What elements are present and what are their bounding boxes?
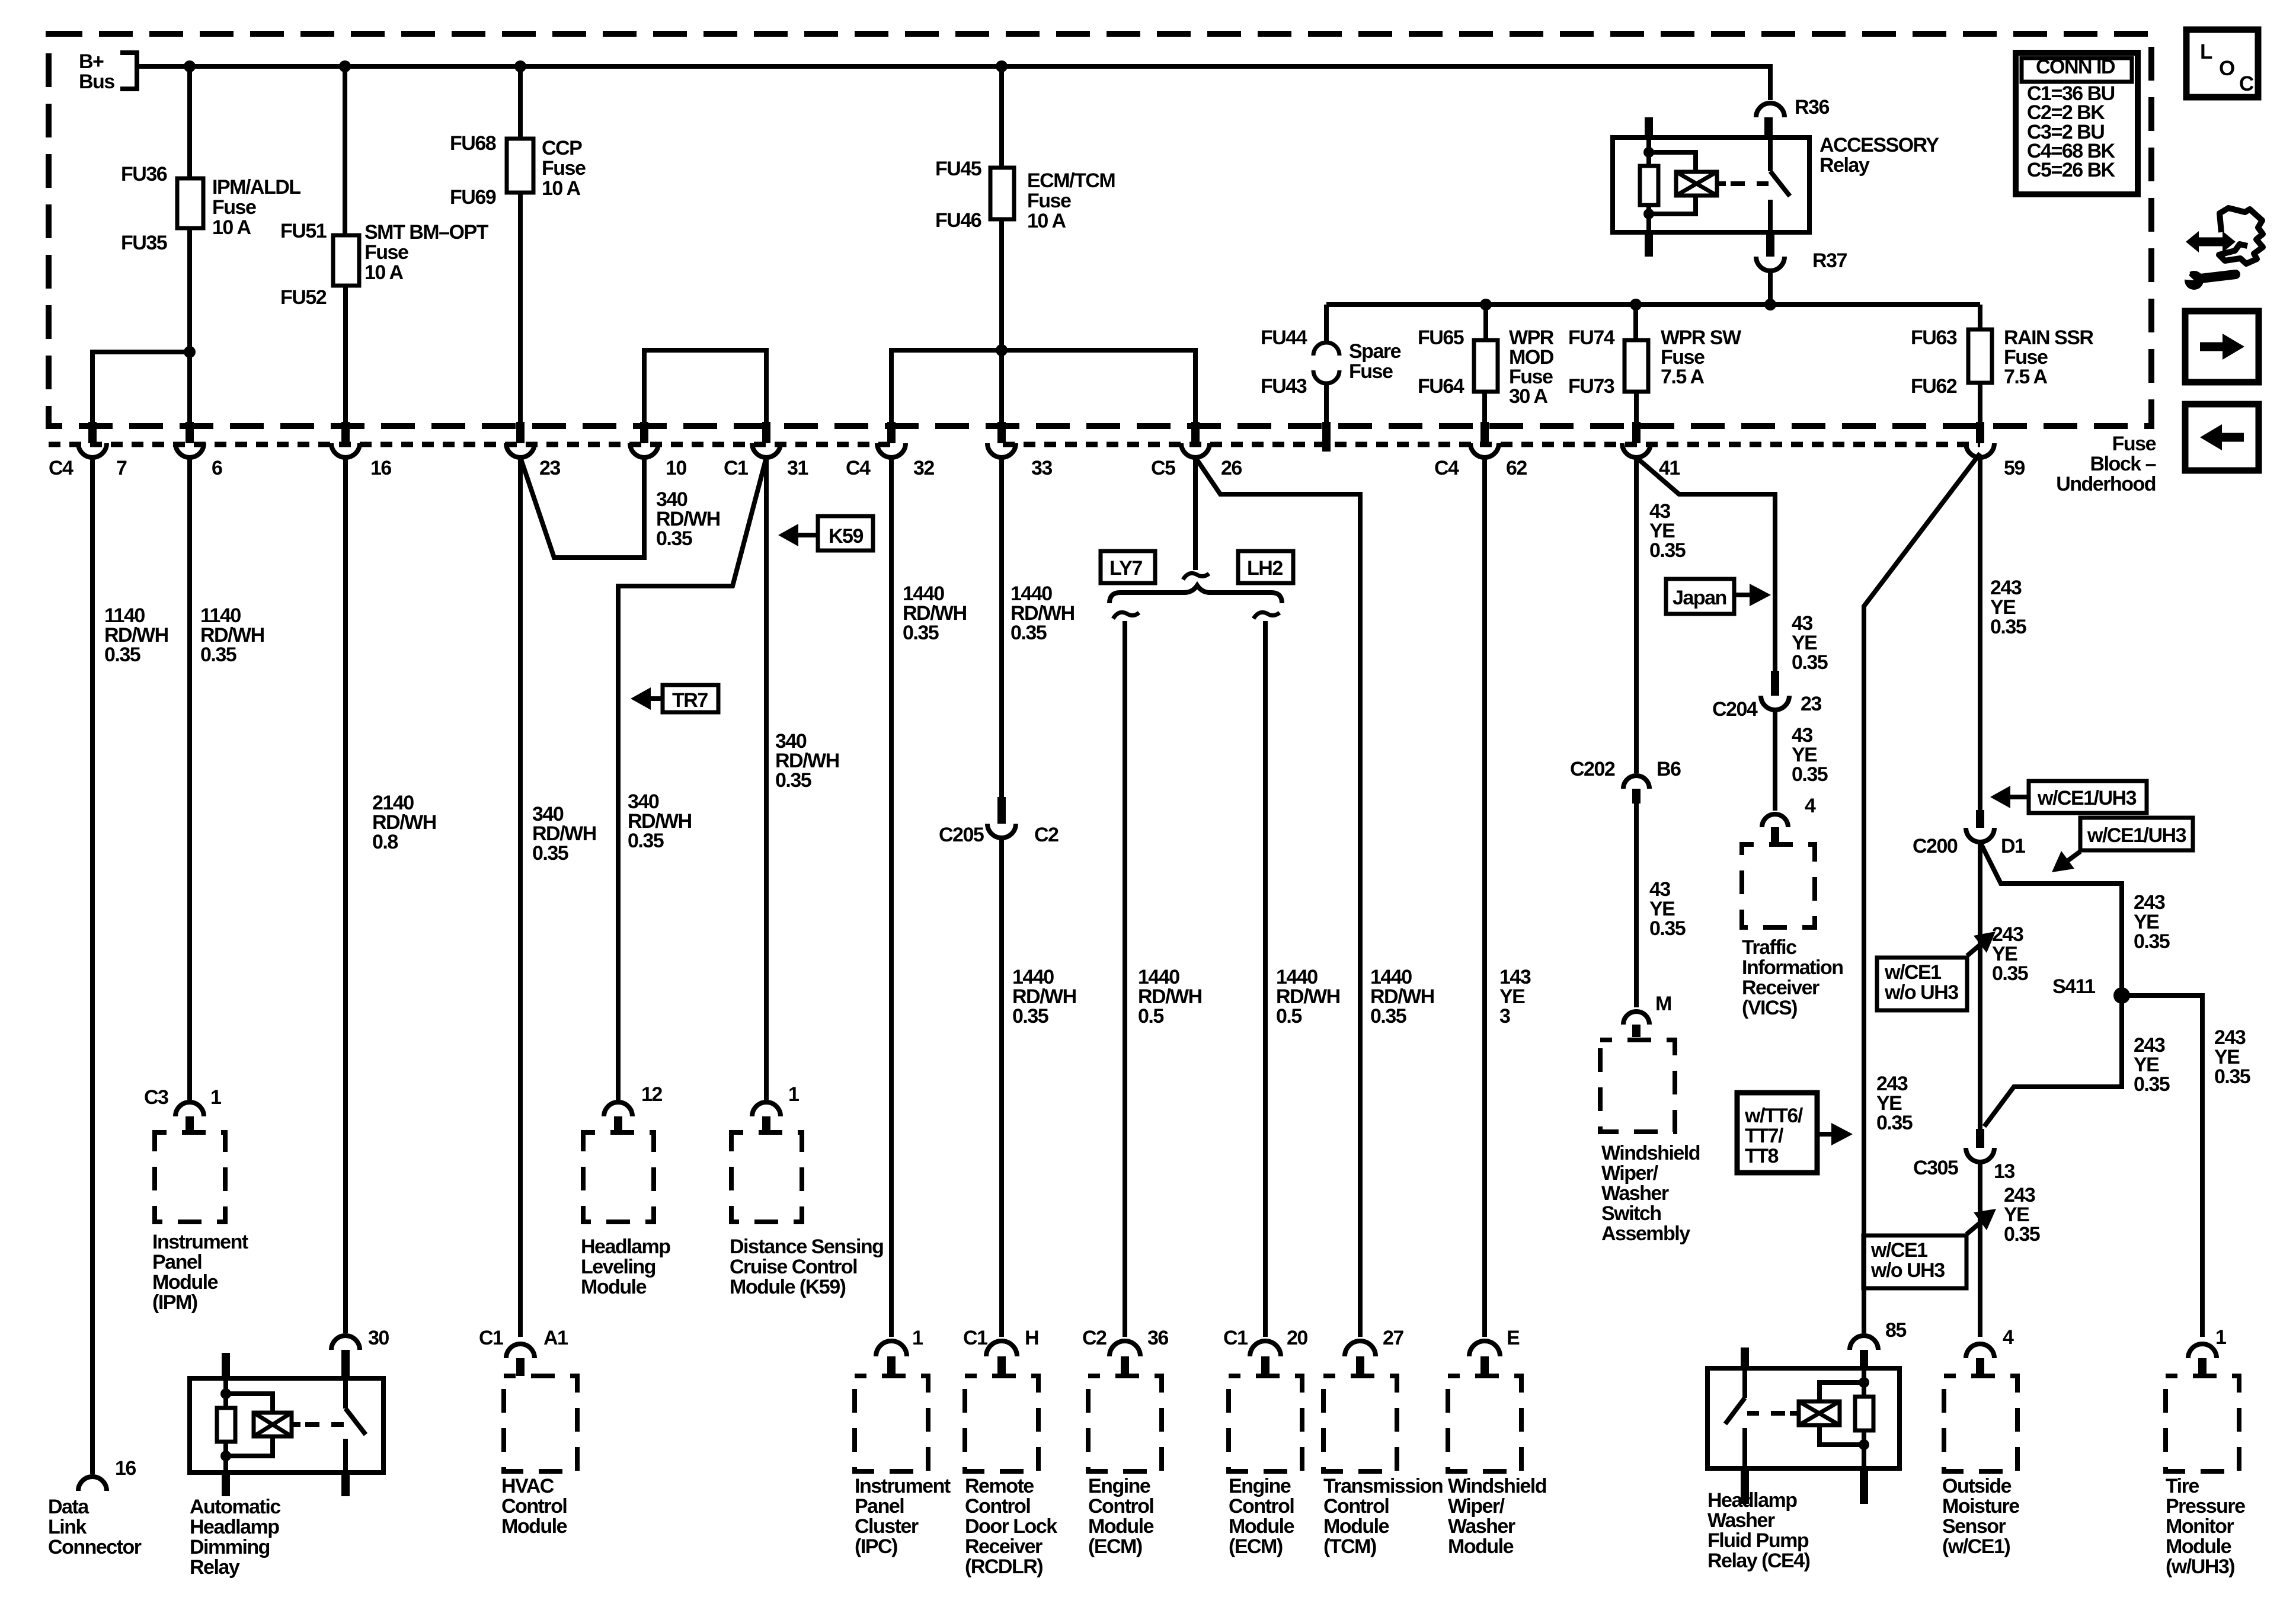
label C5=26 BK	[2027, 159, 2116, 181]
HW relay coil winding symbol	[1799, 1382, 1864, 1445]
svg-text:Windshield: Windshield	[1448, 1475, 1546, 1497]
svg-text:C204: C204	[1712, 698, 1758, 721]
connector id C1 HVAC	[479, 1327, 503, 1349]
connector id C1 RCDLR	[963, 1327, 987, 1349]
HW relay coil resistor	[1855, 1368, 1873, 1468]
pin 10 blade at fuse block	[640, 422, 648, 443]
svg-text:Data: Data	[48, 1496, 89, 1518]
svg-text:4: 4	[2003, 1326, 2014, 1349]
svg-text:30: 30	[368, 1327, 389, 1349]
label C200	[1913, 835, 1958, 857]
label wire 243 YE 0.35 S411 branch	[2134, 1034, 2170, 1096]
connector row dotted line	[49, 442, 1980, 447]
label box w/CE1/UH3 lower	[2080, 818, 2193, 850]
svg-text:Block –: Block –	[2090, 453, 2156, 475]
label wire 43 YE 0.35 pin41	[1649, 500, 1686, 562]
relay coil blade bottom	[1645, 232, 1653, 257]
wire pin 6 to IPM	[187, 457, 192, 1100]
fuse FU63/FU62 RAIN SSR 7.5A	[1968, 329, 1992, 383]
svg-text:FU68: FU68	[450, 132, 496, 155]
wire pin 62 to wiper washer module	[1482, 457, 1487, 1337]
svg-text:FU52: FU52	[280, 286, 327, 309]
svg-text:Wiper/: Wiper/	[1448, 1495, 1505, 1518]
label Fuse Block - Underhood	[2056, 433, 2156, 495]
svg-text:7.5 A: 7.5 A	[1661, 366, 1704, 388]
connector C1 pin A1 at HVAC	[506, 1344, 535, 1376]
arrow K59	[778, 524, 818, 546]
label box w/CE1/UH3 upper	[2029, 781, 2147, 813]
junction on B+ bus x=1690	[996, 60, 1008, 72]
svg-text:(RCDLR): (RCDLR)	[965, 1555, 1043, 1578]
junction pin7 branch	[184, 346, 196, 358]
label FU44	[1261, 327, 1307, 349]
label wire 243 YE 0.35 C200-C305	[1992, 923, 2028, 985]
wire pin 59 diagonal to relay 85	[1864, 453, 1980, 1333]
arrow w/CE1 w/o UH3 lower	[1966, 1209, 1996, 1234]
connector pin E at WWM	[1469, 1341, 1500, 1374]
label box K59	[818, 516, 873, 550]
wire FU62 to pin 59	[1978, 383, 1982, 422]
pin number 23 C204	[1801, 693, 1821, 715]
AHDR actuator dashed link	[292, 1422, 344, 1427]
relay actuator dashed link	[1717, 181, 1769, 186]
fuse block underhood dashed border	[49, 34, 2151, 426]
HW relay coil blade bottom	[1860, 1468, 1868, 1504]
svg-text:Module: Module	[501, 1515, 567, 1538]
svg-text:C1: C1	[963, 1327, 987, 1349]
svg-text:FU69: FU69	[450, 186, 496, 209]
pin 26 blade at fuse block	[1191, 422, 1200, 443]
B+ bus bracket	[120, 53, 137, 89]
svg-text:Outside: Outside	[1942, 1475, 2012, 1497]
label FU62	[1911, 375, 1957, 398]
svg-text:FU62: FU62	[1911, 375, 1957, 398]
pin 32 blade at fuse block	[887, 422, 896, 443]
svg-text:85: 85	[1885, 1319, 1906, 1342]
pin number 16 DLC	[115, 1457, 136, 1480]
connector id C1 for pin 31	[724, 457, 748, 479]
svg-text:Cluster: Cluster	[855, 1515, 919, 1538]
svg-text:33: 33	[1031, 457, 1052, 479]
svg-text:0.35: 0.35	[1012, 1005, 1048, 1028]
connector DLC pin 16	[78, 1477, 107, 1491]
pin number 23	[539, 457, 560, 479]
label FU63	[1911, 327, 1957, 349]
label C202	[1570, 758, 1615, 780]
wire FU73 to pin 41	[1634, 392, 1639, 422]
svg-text:0.35: 0.35	[200, 644, 236, 666]
svg-text:Remote: Remote	[965, 1475, 1034, 1497]
wire FU68 drop from bus	[518, 66, 523, 139]
label Headlamp Washer Fluid Pump Relay (CE4)	[1707, 1489, 1810, 1572]
pin 32 connector arc	[877, 443, 906, 457]
svg-text:ECM/TCM: ECM/TCM	[1027, 169, 1115, 192]
connector pin 1 TPMM	[2188, 1344, 2217, 1374]
svg-text:w/CE1: w/CE1	[1884, 961, 1941, 984]
HW relay switch blade bottom	[1741, 1468, 1749, 1504]
svg-text:C1: C1	[724, 457, 748, 479]
blade spare fuse stub	[1322, 422, 1331, 452]
module Distance Sensing Cruise Control Module box	[731, 1132, 802, 1222]
wire pin 23 to pin 10 link	[520, 457, 644, 558]
wire break curl LY7 leg	[1113, 612, 1139, 619]
svg-text:K59: K59	[829, 525, 863, 548]
svg-text:Japan: Japan	[1673, 587, 1726, 609]
svg-text:B+: B+	[79, 50, 104, 73]
pin number 13	[1994, 1160, 2014, 1183]
pin number 36 ECM1	[1147, 1327, 1168, 1349]
pin 26 connector arc	[1181, 443, 1210, 457]
svg-text:Washer: Washer	[1707, 1509, 1775, 1532]
svg-text:Engine: Engine	[1229, 1475, 1291, 1497]
pin number 1 IPM	[210, 1086, 221, 1109]
label wire 243 YE 0.35 pin59	[1990, 577, 2026, 638]
wire LY7 leg to ECM	[1123, 621, 1127, 1337]
pin number 4 OMS	[2003, 1326, 2014, 1349]
svg-text:C4: C4	[49, 457, 73, 479]
svg-text:Washer: Washer	[1601, 1182, 1669, 1205]
svg-text:31: 31	[787, 457, 808, 479]
label wire 340 RD/WH 0.35 pin10	[656, 488, 720, 550]
label wire 43 YE 0.35 C204 lower	[1792, 724, 1828, 786]
module ECM1 box	[1088, 1376, 1162, 1471]
label Data Link Connector	[48, 1496, 142, 1558]
pin number 16	[370, 457, 391, 479]
junction on B+ bus x=878	[514, 60, 526, 72]
svg-text:Module: Module	[1088, 1515, 1154, 1538]
svg-text:Engine: Engine	[1088, 1475, 1150, 1497]
svg-text:w/o UH3: w/o UH3	[1884, 981, 1958, 1004]
relay ACCESSORY Relay box	[1613, 137, 1809, 232]
pin 6 connector arc	[175, 443, 204, 457]
HW relay switch contact	[1725, 1347, 1749, 1468]
svg-text:10 A: 10 A	[212, 216, 251, 239]
wire pin 32 to IPC	[889, 457, 894, 1337]
svg-text:IPM/ALDL: IPM/ALDL	[212, 176, 300, 199]
module Tire Pressure Monitor Module box	[2166, 1376, 2239, 1471]
node B+ Bus label	[79, 50, 114, 93]
svg-text:E: E	[1507, 1327, 1520, 1349]
svg-text:Module: Module	[2166, 1535, 2231, 1558]
svg-text:FU63: FU63	[1911, 327, 1957, 349]
svg-text:Module: Module	[1229, 1515, 1294, 1538]
svg-text:10 A: 10 A	[1027, 210, 1066, 232]
pin 7 blade at fuse block	[88, 422, 97, 443]
pin 31 connector arc	[752, 443, 781, 457]
connector pin H at RCDLR	[986, 1341, 1017, 1374]
relay Automatic Headlamp Dimming Relay box	[190, 1378, 383, 1473]
svg-text:FU46: FU46	[935, 209, 981, 232]
label RCDLR text	[965, 1475, 1057, 1578]
svg-text:Module: Module	[1323, 1515, 1389, 1538]
junction rail x=2507	[1480, 299, 1492, 311]
pin 33 blade at fuse block	[997, 422, 1006, 443]
pin number 33	[1031, 457, 1052, 479]
svg-text:Headlamp: Headlamp	[581, 1235, 670, 1258]
svg-text:C1: C1	[1223, 1327, 1248, 1349]
pin 10 connector arc	[630, 443, 658, 457]
label SMT BM-OPT Fuse 10 A	[364, 221, 489, 284]
svg-text:FU36: FU36	[121, 163, 167, 185]
svg-text:CCP: CCP	[542, 137, 582, 159]
label wire 143 YE 3	[1499, 966, 1531, 1028]
svg-text:59: 59	[2004, 457, 2025, 479]
label Distance Sensing Cruise Control Module (K59)	[730, 1235, 883, 1298]
module Traffic Information Receiver box	[1742, 844, 1815, 927]
AHDR switch contact	[346, 1378, 366, 1473]
label wire 1440 RD/WH 0.35 pin32	[903, 582, 967, 644]
HW relay actuator dashed link	[1747, 1411, 1799, 1416]
label box w/CE1 w/o UH3 lower	[1863, 1235, 1966, 1288]
connector pin 1 at IPC	[876, 1341, 907, 1374]
label wire 1440 RD/WH 0.5 LY7	[1138, 966, 1202, 1028]
svg-text:FU73: FU73	[1568, 375, 1614, 398]
svg-text:H: H	[1025, 1327, 1038, 1349]
module TCM box	[1323, 1376, 1397, 1471]
pin number 4 VICS	[1805, 795, 1816, 817]
wire rail to spare fuse	[1324, 305, 1329, 344]
junction on B+ bus x=582	[339, 60, 351, 72]
pin number H RCDLR	[1025, 1327, 1038, 1349]
svg-text:10 A: 10 A	[542, 177, 581, 200]
relay Headlamp Washer Fluid Pump Relay box	[1707, 1368, 1900, 1468]
svg-text:(VICS): (VICS)	[1742, 997, 1797, 1019]
label wire 243 YE 0.35 TPMM	[2214, 1026, 2250, 1088]
label RAIN SSR Fuse 7.5 A	[2004, 327, 2093, 388]
label ECM2 text	[1229, 1475, 1294, 1558]
connector id C5 for pin 26	[1151, 457, 1175, 479]
svg-text:Washer: Washer	[1448, 1515, 1515, 1538]
wire FU45 drop from bus	[999, 66, 1004, 168]
label FU45	[935, 158, 981, 180]
icon double arrow	[2186, 231, 2236, 252]
module Instrument Panel Module box	[155, 1132, 225, 1222]
connector pin 27 at TCM	[1345, 1341, 1376, 1374]
AHDR coil winding symbol	[226, 1394, 292, 1456]
svg-text:10 A: 10 A	[364, 261, 404, 284]
label CCP Fuse 10 A	[542, 137, 586, 200]
pin number 1 IPC	[912, 1327, 923, 1349]
label Windshield Wiper/ Washer Switch Assembly	[1601, 1142, 1700, 1245]
pin number A1	[543, 1327, 568, 1349]
label FU36	[121, 163, 167, 185]
svg-text:Pressure: Pressure	[2166, 1495, 2245, 1518]
label Outside Moisture Sensor (w/CE1)	[1942, 1475, 2019, 1558]
svg-text:FU64: FU64	[1418, 375, 1464, 398]
svg-text:0.35: 0.35	[1792, 763, 1828, 786]
arrow w/CE1 w/o UH3 upper	[1967, 932, 1996, 956]
svg-text:0.35: 0.35	[1992, 962, 2028, 985]
junction on B+ bus x=320	[184, 60, 196, 72]
pin number M	[1655, 993, 1671, 1015]
label wire 1140 RD/WH 0.35 pin6	[200, 604, 264, 666]
label wire 1140 RD/WH 0.35 pin7	[104, 604, 168, 666]
svg-text:Receiver: Receiver	[965, 1535, 1043, 1558]
arrow Japan	[1734, 584, 1771, 606]
wire pin 33 to C205	[999, 457, 1004, 797]
label wire 243 YE 0.35 relay85	[1876, 1073, 1913, 1134]
module Outside Moisture Sensor box	[1944, 1376, 2017, 1471]
wire break curl pin 26	[1183, 573, 1209, 580]
wire S411 down branch to C305	[1984, 996, 2122, 1126]
svg-text:Relay (CE4): Relay (CE4)	[1707, 1550, 1810, 1572]
label box LH2	[1238, 551, 1293, 583]
label TCM text	[1323, 1475, 1443, 1558]
svg-text:Control: Control	[501, 1495, 567, 1518]
svg-text:41: 41	[1659, 457, 1680, 479]
label box w/TT6/TT7/TT8	[1737, 1093, 1817, 1173]
label WWM text	[1448, 1475, 1546, 1558]
pin number 32	[913, 457, 934, 479]
wire FU46 to pin 33	[999, 219, 1004, 422]
svg-text:Sensor: Sensor	[1942, 1515, 2006, 1538]
svg-text:LH2: LH2	[1247, 557, 1283, 580]
svg-text:C5=26 BK: C5=26 BK	[2027, 159, 2116, 181]
wire C305 to outside moisture sensor	[1978, 1162, 1982, 1337]
svg-text:Monitor: Monitor	[2166, 1515, 2234, 1538]
svg-text:Bus: Bus	[79, 71, 114, 93]
CONN ID table box	[2016, 53, 2138, 194]
pin number D1	[2001, 835, 2025, 857]
svg-text:0.35: 0.35	[1649, 539, 1686, 562]
module IPC box	[855, 1376, 928, 1471]
svg-text:FU51: FU51	[280, 220, 327, 242]
svg-text:0.35: 0.35	[1649, 917, 1686, 940]
svg-text:0.35: 0.35	[1876, 1112, 1913, 1134]
svg-text:0.5: 0.5	[1138, 1005, 1163, 1028]
svg-text:HVAC: HVAC	[501, 1475, 554, 1497]
fuse FU65/FU64 WPR MOD 30A	[1474, 340, 1498, 392]
pin 59 connector arc	[1966, 443, 1994, 457]
svg-text:R36: R36	[1795, 96, 1829, 119]
label box LY7	[1101, 551, 1155, 583]
svg-text:6: 6	[212, 457, 222, 479]
svg-text:C202: C202	[1570, 758, 1615, 780]
svg-text:7: 7	[116, 457, 127, 479]
svg-text:Transmission: Transmission	[1323, 1475, 1443, 1497]
fuse FU36/FU35 IPM/ALDL 10A	[177, 178, 203, 228]
svg-text:Module: Module	[1448, 1535, 1514, 1558]
svg-text:7.5 A: 7.5 A	[2004, 366, 2047, 388]
label wire 340 RD/WH 0.35 K59 branch	[775, 730, 839, 792]
wire bus corner down to R36	[1768, 64, 1773, 100]
label FU35	[121, 232, 167, 254]
wire C200 right branch to S411	[1980, 842, 2122, 996]
wire R37 to rail	[1768, 271, 1773, 305]
relay coil resistor	[1640, 137, 1658, 232]
label CONN ID	[2036, 56, 2115, 78]
junction rail x=2987	[1764, 299, 1776, 311]
label WPR MOD Fuse 30 A	[1509, 327, 1554, 408]
svg-text:Assembly: Assembly	[1601, 1222, 1690, 1245]
svg-text:62: 62	[1506, 457, 1527, 479]
connector C204 23	[1761, 671, 1789, 710]
wire pin 59 to C200	[1978, 457, 1982, 810]
wire pin 26 branch to TCM	[1195, 457, 1360, 1337]
svg-text:0.35: 0.35	[104, 644, 140, 666]
svg-text:TR7: TR7	[672, 689, 708, 712]
connector pin 12 headlamp leveling module	[604, 1102, 632, 1131]
svg-text:0.35: 0.35	[532, 842, 568, 865]
label WPR SW Fuse 7.5 A	[1661, 327, 1742, 388]
label box TR7	[663, 685, 718, 712]
connector C305 13	[1966, 1129, 1994, 1162]
svg-text:C200: C200	[1913, 835, 1958, 857]
svg-text:Link: Link	[48, 1516, 87, 1538]
svg-text:L: L	[2200, 40, 2212, 63]
svg-text:0.8: 0.8	[372, 831, 398, 853]
label FU46	[935, 209, 981, 232]
pin number 85	[1885, 1319, 1906, 1342]
wire pin 31 to K59 module	[764, 457, 769, 1100]
svg-text:FU44: FU44	[1261, 327, 1307, 349]
svg-text:Module: Module	[152, 1271, 218, 1294]
svg-text:Fuse: Fuse	[212, 196, 256, 219]
wire pin 31 branch to headlamp leveling	[618, 457, 766, 1100]
svg-text:Fuse: Fuse	[542, 157, 586, 180]
svg-text:Leveling: Leveling	[581, 1256, 655, 1278]
svg-text:C2: C2	[1082, 1327, 1107, 1349]
svg-text:Panel: Panel	[152, 1251, 202, 1273]
wire rail to FU65	[1483, 305, 1488, 340]
svg-text:1: 1	[2215, 1326, 2226, 1349]
pin 16 blade at fuse block	[341, 422, 350, 443]
arrow w/CE1/UH3 upper	[1990, 786, 2029, 808]
svg-text:0.35: 0.35	[1011, 622, 1047, 644]
svg-text:C4: C4	[1434, 457, 1459, 479]
pin number 20 ECM2	[1287, 1327, 1307, 1349]
label R36	[1795, 96, 1829, 119]
svg-text:C205: C205	[939, 824, 984, 846]
wire C202 to wiper switch	[1634, 804, 1639, 1007]
svg-text:Fuse: Fuse	[1027, 190, 1071, 212]
label C1=36 BU	[2027, 82, 2115, 105]
svg-text:Module (K59): Module (K59)	[730, 1276, 846, 1298]
svg-text:23: 23	[1801, 693, 1821, 715]
svg-text:w/TT6/: w/TT6/	[1744, 1105, 1803, 1127]
wire S411 to tire pressure monitor	[2122, 996, 2202, 1337]
svg-text:C4: C4	[846, 457, 871, 479]
svg-text:w/CE1: w/CE1	[1870, 1239, 1927, 1262]
connector R36	[1756, 103, 1785, 137]
label wire 2140 RD/WH 0.8	[372, 792, 436, 853]
pin number 12	[641, 1083, 662, 1106]
connector id C4 for pin 32	[846, 457, 871, 479]
pin number 59	[2004, 457, 2025, 479]
AHDR switch blade bottom	[341, 1473, 350, 1496]
svg-text:C2: C2	[1034, 824, 1059, 846]
svg-text:Fluid Pump: Fluid Pump	[1707, 1529, 1809, 1552]
pin 33 connector arc	[987, 443, 1016, 457]
svg-text:S411: S411	[2052, 975, 2095, 998]
connector pin 4 OMS	[1966, 1344, 1994, 1374]
svg-text:(w/CE1): (w/CE1)	[1942, 1535, 2010, 1558]
svg-text:TT8: TT8	[1745, 1145, 1779, 1167]
wire spare fuse stub	[1324, 383, 1329, 422]
svg-text:C1: C1	[479, 1327, 503, 1349]
svg-text:CONN ID: CONN ID	[2036, 56, 2115, 78]
svg-text:Cruise Control: Cruise Control	[730, 1256, 857, 1278]
svg-text:0.35: 0.35	[2214, 1065, 2250, 1088]
LOC page icon	[2186, 30, 2258, 97]
fuse FU74/FU73 WPR SW 7.5A	[1625, 340, 1648, 392]
svg-text:(TCM): (TCM)	[1323, 1535, 1376, 1558]
label FU52	[280, 286, 327, 309]
svg-text:Moisture: Moisture	[1942, 1495, 2019, 1518]
connector C200 D1	[1966, 810, 1994, 842]
svg-text:Instrument: Instrument	[152, 1231, 248, 1253]
label FU73	[1568, 375, 1614, 398]
